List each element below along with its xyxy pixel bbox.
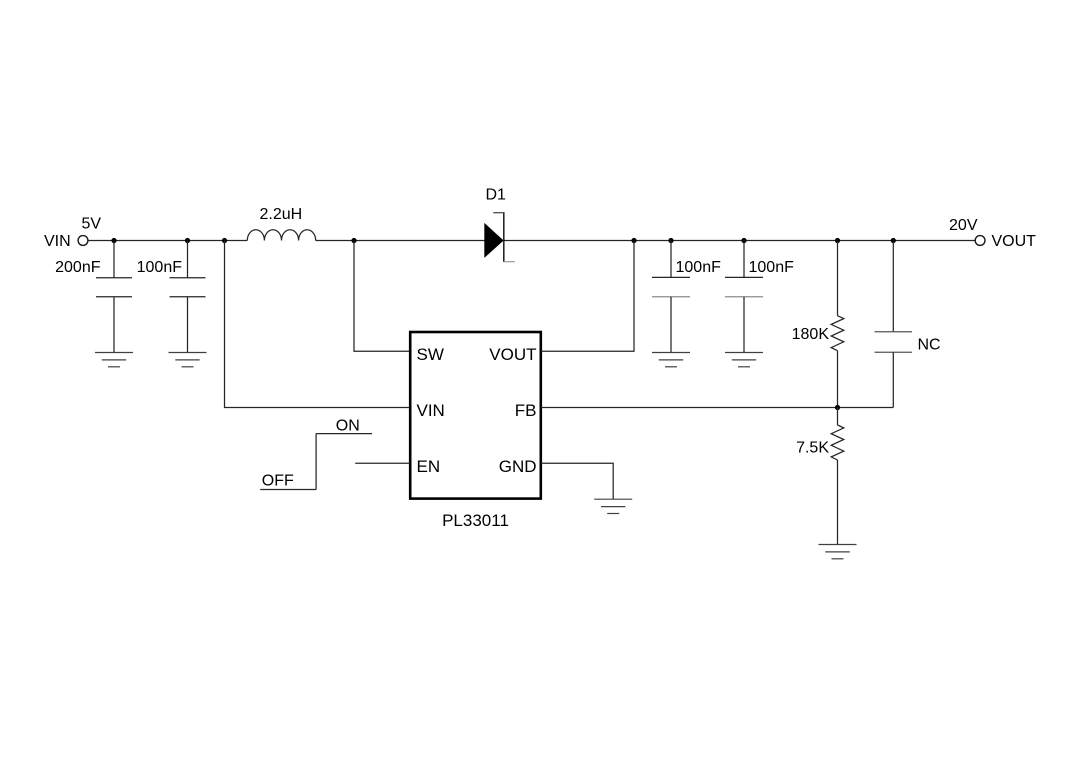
capacitor C4 100nF: [725, 241, 763, 353]
svg-text:200nF: 200nF: [55, 259, 101, 276]
junction at VIN branch: [222, 238, 227, 243]
wire VOUT branch: [541, 241, 634, 352]
junction at R1: [835, 238, 840, 243]
svg-text:100nF: 100nF: [676, 259, 722, 276]
svg-text:OFF: OFF: [262, 473, 294, 490]
svg-text:ON: ON: [336, 418, 360, 435]
ground for C3: [652, 353, 690, 367]
svg-text:NC: NC: [918, 337, 941, 354]
capacitor C2 100nF: [170, 241, 206, 353]
wire main rail from VIN terminal to inductor: [88, 240, 247, 242]
junction at SW branch: [351, 238, 356, 243]
svg-text:VOUT: VOUT: [489, 345, 536, 364]
svg-text:100nF: 100nF: [137, 259, 183, 276]
capacitor C1 200nF: [96, 241, 132, 353]
resistor R1 180K: [831, 241, 844, 408]
node VIN input terminal: [78, 236, 88, 246]
inductor L1 2.2uH: [247, 230, 315, 241]
svg-text:VIN: VIN: [417, 401, 445, 420]
svg-text:PL33011: PL33011: [442, 511, 509, 530]
svg-text:GND: GND: [499, 457, 537, 476]
wire VIN branch: [225, 241, 411, 408]
svg-text:D1: D1: [486, 187, 507, 204]
svg-text:EN: EN: [417, 457, 441, 476]
ground for C2: [169, 353, 207, 367]
wire FB net: [541, 407, 893, 409]
resistor R2 7.5K: [831, 408, 844, 545]
svg-text:180K: 180K: [792, 326, 830, 343]
wire GND pin to ground: [541, 463, 613, 499]
junction at VOUT branch: [631, 238, 636, 243]
svg-text:FB: FB: [515, 401, 537, 420]
wire EN stub: [355, 462, 410, 464]
junction FB node: [835, 405, 840, 410]
junction at C3: [668, 238, 673, 243]
capacitor C3 100nF: [652, 241, 690, 353]
svg-text:100nF: 100nF: [749, 259, 795, 276]
junction at C2: [185, 238, 190, 243]
switch waveform ON level: [316, 433, 372, 435]
junction at C1: [111, 238, 116, 243]
ground for R2: [819, 545, 857, 559]
junction at C4: [741, 238, 746, 243]
svg-text:7.5K: 7.5K: [796, 440, 829, 457]
IC U1 PL33011 body: [410, 332, 541, 499]
wire main rail from inductor to VOUT terminal: [316, 240, 975, 242]
svg-text:VIN: VIN: [44, 233, 71, 250]
capacitor C5 NC: [875, 241, 913, 408]
wire SW branch: [354, 241, 410, 352]
ground for C1: [95, 353, 133, 367]
svg-text:5V: 5V: [82, 216, 102, 233]
svg-text:20V: 20V: [949, 217, 978, 234]
svg-text:2.2uH: 2.2uH: [260, 206, 303, 223]
svg-text:VOUT: VOUT: [992, 233, 1037, 250]
ground for GND pin: [594, 499, 632, 513]
ground for C4: [725, 353, 763, 367]
diode D1 (Schottky): [484, 212, 515, 262]
node VOUT output terminal: [975, 236, 985, 246]
switch waveform OFF level: [260, 489, 316, 491]
junction at NC cap: [891, 238, 896, 243]
switch waveform rising edge: [315, 434, 317, 490]
svg-text:SW: SW: [417, 345, 444, 364]
